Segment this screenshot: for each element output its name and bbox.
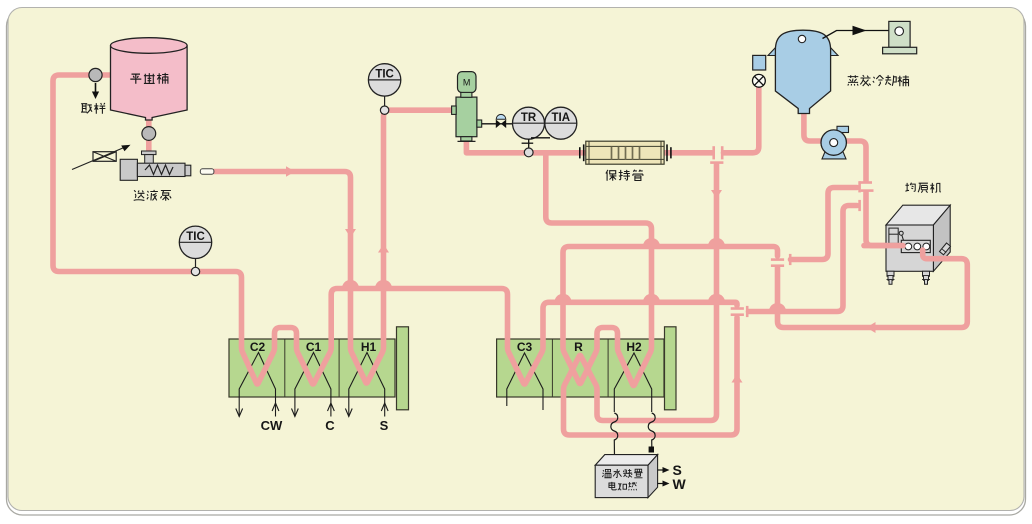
arrow right on pump discharge <box>286 166 295 177</box>
pump main body <box>137 163 185 176</box>
instrument TR <box>513 107 545 139</box>
hop at (383.5,288.5) <box>375 280 392 289</box>
svg-text:C3: C3 <box>517 340 533 354</box>
vent circle on dome <box>798 35 805 42</box>
legs <box>887 243 951 284</box>
svg-text:R: R <box>574 340 583 354</box>
label 均质机 <box>905 183 940 193</box>
section H2 black lambda joining heater coils <box>614 353 651 412</box>
svg-text:M: M <box>463 78 471 88</box>
hop at (350.5,288.5) <box>342 280 359 289</box>
tank outlet valve circle <box>142 127 156 141</box>
cap right end of stub A <box>858 181 861 192</box>
svg-text:TIC: TIC <box>186 231 205 243</box>
coupling caps (salmon bars) <box>710 146 873 317</box>
svg-text:C2: C2 <box>250 340 266 354</box>
exchanger block 1 (C2 C1 H1) <box>229 339 395 397</box>
right fin <box>830 47 839 56</box>
label 送液泵 <box>134 190 171 201</box>
pump inlet flange <box>142 151 157 155</box>
pump screw zigzag <box>145 165 173 175</box>
flow arrows (salmon) <box>286 166 876 382</box>
wire: homogenizer inlet (over face) <box>778 246 968 328</box>
exchanger block 2 (C3 R H2) <box>497 339 664 397</box>
front face <box>886 225 933 271</box>
svg-text:S: S <box>380 418 389 433</box>
lever <box>899 231 903 235</box>
S arrow at heater <box>658 469 664 471</box>
wire: capped stub B (y205 coupling bypass) <box>749 206 858 312</box>
svg-text:TIA: TIA <box>552 112 571 124</box>
section H1 black lambda with legs <box>345 353 388 417</box>
wire: evaporative tank outlet -> centrifugal pump -> down to break <box>804 112 866 181</box>
wire: pump discharge -> H1 -> M vessel <box>214 110 452 383</box>
instrument TIA <box>545 107 577 139</box>
arrow down on pipe A <box>711 190 722 199</box>
arrow down on H1 feed <box>345 229 356 238</box>
svg-text:CW: CW <box>261 418 283 433</box>
vessel left inlet nub <box>452 106 457 114</box>
end plate of exchanger 2 <box>665 327 677 410</box>
TR probe stem into line <box>522 138 550 149</box>
svg-text:H2: H2 <box>626 340 642 354</box>
arrow up on warm-water riser x737 <box>732 374 743 383</box>
wire: tank outlet stub to feed pump <box>146 116 152 151</box>
label 平衡桶 <box>130 73 168 84</box>
hop at (777.5,311.5) <box>769 303 786 312</box>
label 温水装置 <box>602 469 642 478</box>
union break on x777 <box>771 258 784 261</box>
evaporative cooling tank body <box>775 30 830 113</box>
section C3 black lambda <box>507 353 543 410</box>
valve stem arrow <box>72 148 124 170</box>
vessel right outlet nub <box>477 120 482 127</box>
left fin <box>768 47 777 56</box>
break on pump line x866 <box>859 181 872 184</box>
svg-text:TR: TR <box>521 112 537 124</box>
break on x737 riser <box>731 307 744 310</box>
vacuum pump unit <box>883 21 917 53</box>
vessel bottom nub and flange <box>461 137 472 141</box>
balance tank body <box>111 46 188 121</box>
wire: M vessel outlet main line to coupling <box>466 141 712 153</box>
circle-X valve <box>753 74 766 87</box>
regulating valve with X <box>93 152 116 162</box>
tube body <box>586 141 664 164</box>
svg-text:C1: C1 <box>306 340 322 354</box>
hop at (716.5,302.3) <box>708 294 725 303</box>
balance tank top rim ellipse <box>111 38 188 54</box>
section C1 black lambda with legs <box>292 353 335 417</box>
hop at (716.5,246.5) <box>708 238 725 247</box>
right face <box>933 205 950 271</box>
wire: capped stub A (y187 coupling bypass) <box>791 188 858 260</box>
arrow up on H1 outlet riser <box>378 244 389 253</box>
coupling break on main line after holding tube <box>712 146 715 159</box>
top face <box>886 205 950 225</box>
pump outlet flange <box>185 165 191 176</box>
hop at (651.5,246.5) <box>643 238 660 247</box>
heater coil right <box>648 413 655 447</box>
piston panel with 3 ports <box>901 240 930 252</box>
cap left end of stub A <box>789 254 792 265</box>
svg-text:TIC: TIC <box>375 69 394 81</box>
control valve with actuator dome <box>482 114 513 128</box>
heater terminal square <box>649 447 654 453</box>
wire: main-line tee -> H2 -> R V -> y246 -> union x777 <box>546 154 778 386</box>
wire: balance tank return line -> C2 -> C1 -> C3 -> coupling x737 <box>53 75 737 384</box>
arrow left on homogenizer return <box>867 322 876 333</box>
cap left end of stub B <box>746 306 749 317</box>
motor housing M <box>458 72 477 93</box>
wire: main line after coupling up to circle-X valve <box>724 88 759 153</box>
heater coil left <box>611 413 618 457</box>
heater box <box>595 455 657 498</box>
hop at (651.5,302.3) <box>643 294 660 303</box>
left connector bars <box>579 147 581 158</box>
vessel body <box>456 97 477 137</box>
label 蒸发冷却桶 <box>848 75 909 86</box>
hop at (563,302.3) <box>554 294 571 303</box>
section C2 black lambda with legs <box>236 353 279 417</box>
right connector bars <box>666 144 668 161</box>
W arrow at heater <box>658 483 664 485</box>
vacuum line with arrow <box>823 31 889 39</box>
sampling valve circle on return line <box>89 68 102 81</box>
wire: homogenizer outlet return loop to union x777 <box>778 250 968 328</box>
node circle on main line under TR <box>524 148 533 157</box>
svg-text:H1: H1 <box>361 340 377 354</box>
end plate of exchanger 1 <box>397 327 409 410</box>
sampling take-off arrow <box>95 83 97 93</box>
blue spray box <box>753 55 766 70</box>
cap right end of stub B <box>858 200 861 211</box>
label 保持管 <box>606 170 643 181</box>
svg-text:C: C <box>325 418 335 433</box>
wire: warm-water circuit x737 -> R lambda -> y420 -> pipe A riser <box>564 165 738 436</box>
cap on top of pipe A <box>710 161 723 164</box>
small gauge box <box>889 228 898 243</box>
hop bumps where pipes cross <box>342 238 786 312</box>
label 电加热 <box>609 482 637 491</box>
pump left block <box>120 159 137 180</box>
wire: below break into homogenizer <box>866 193 903 246</box>
label 取样 <box>81 103 105 114</box>
pump outlet nozzle <box>200 169 214 174</box>
svg-text:W: W <box>673 476 687 492</box>
